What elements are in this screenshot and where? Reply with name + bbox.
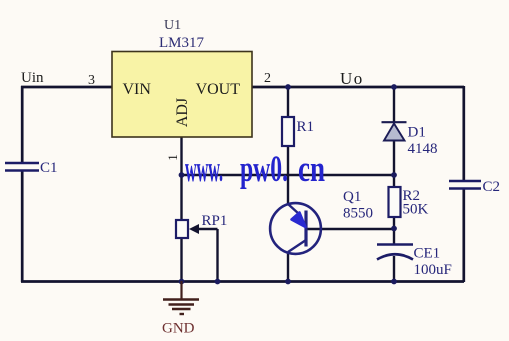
svg-text:50K: 50K (403, 202, 429, 218)
wire CE1 bottom to ground bus (393, 256, 395, 281)
junction ADJ node (179, 172, 185, 178)
svg-text:ADJ: ADJ (174, 98, 191, 127)
junction RP1 bottom ground (179, 279, 185, 285)
resistor R2 (50K) (389, 187, 429, 218)
wire ADJ pin 1 vertical (box to RP1 top) (180, 137, 182, 220)
junction R1 top bus (285, 84, 291, 90)
capacitor C1 (5, 160, 58, 176)
junction D1/R2 node (391, 172, 397, 178)
svg-text:U1: U1 (164, 18, 181, 33)
ground symbol (163, 281, 199, 314)
wire ADJ horizontal net (to D1/R2 node) (182, 174, 395, 176)
wire R1 branch top (287, 87, 289, 117)
svg-text:pw0.: pw0. (240, 149, 288, 190)
junction wiper return ground (215, 279, 221, 285)
wire Q1 base to R2/CE1 node (306, 228, 394, 230)
wire Q1 bottom to ground bus (287, 252, 289, 281)
diode D1 (4148) (382, 122, 438, 157)
svg-text:Q1: Q1 (343, 189, 361, 205)
svg-text:GND: GND (162, 321, 195, 337)
svg-text:8550: 8550 (343, 206, 373, 222)
wire right vertical (Uo rail through C2) (462, 86, 465, 282)
capacitor C2 (449, 179, 500, 195)
wire RP1 bottom to ground bus (180, 238, 182, 281)
resistor R1 (282, 117, 314, 146)
svg-text:2: 2 (264, 71, 271, 86)
svg-text:www.: www. (185, 149, 223, 190)
watermark www.pw0.cn (185, 149, 325, 190)
svg-text:RP1: RP1 (202, 213, 228, 229)
wire RP1 wiper return vertical (216, 229, 218, 281)
wire left vertical (Uin rail through C1) (21, 86, 24, 282)
svg-text:C1: C1 (40, 160, 58, 176)
svg-text:VOUT: VOUT (196, 81, 241, 98)
svg-text:D1: D1 (408, 125, 426, 141)
wire top bus left (Uin to VIN pin 3) (21, 86, 112, 89)
potentiometer RP1 (176, 213, 227, 238)
svg-text:cn: cn (298, 149, 325, 190)
wire bottom bus (ground rail) (21, 280, 464, 283)
wire node to R2 top (393, 175, 395, 187)
svg-text:LM317: LM317 (159, 35, 205, 51)
wire D1 bottom to node (393, 140, 395, 175)
svg-text:Uo: Uo (340, 69, 364, 88)
transistor Q1 (8550 PNP) (270, 189, 373, 254)
svg-text:3: 3 (88, 73, 95, 88)
junction Q1 ground (285, 279, 291, 285)
svg-text:1: 1 (165, 154, 180, 161)
wire R1 bottom to Q1 top (287, 146, 289, 205)
svg-text:R1: R1 (297, 119, 315, 135)
capacitor CE1 (100uF electrolytic) (377, 245, 452, 279)
svg-text:VIN: VIN (123, 81, 152, 98)
wire R2 bottom to CE1 top (393, 217, 395, 244)
junction base/R2/CE1 node (391, 226, 397, 232)
svg-text:CE1: CE1 (414, 246, 441, 262)
svg-text:4148: 4148 (408, 141, 438, 157)
wire top bus right (VOUT pin 2 to Uo to right corner) (252, 86, 464, 89)
svg-text:C2: C2 (483, 179, 501, 195)
wire D1 branch top (393, 87, 395, 122)
svg-text:100uF: 100uF (414, 262, 452, 278)
svg-text:Uin: Uin (21, 70, 44, 86)
junction CE1 ground (391, 279, 397, 285)
op-amp U1 LM317 body (112, 52, 252, 138)
junction D1 top bus (391, 84, 397, 90)
